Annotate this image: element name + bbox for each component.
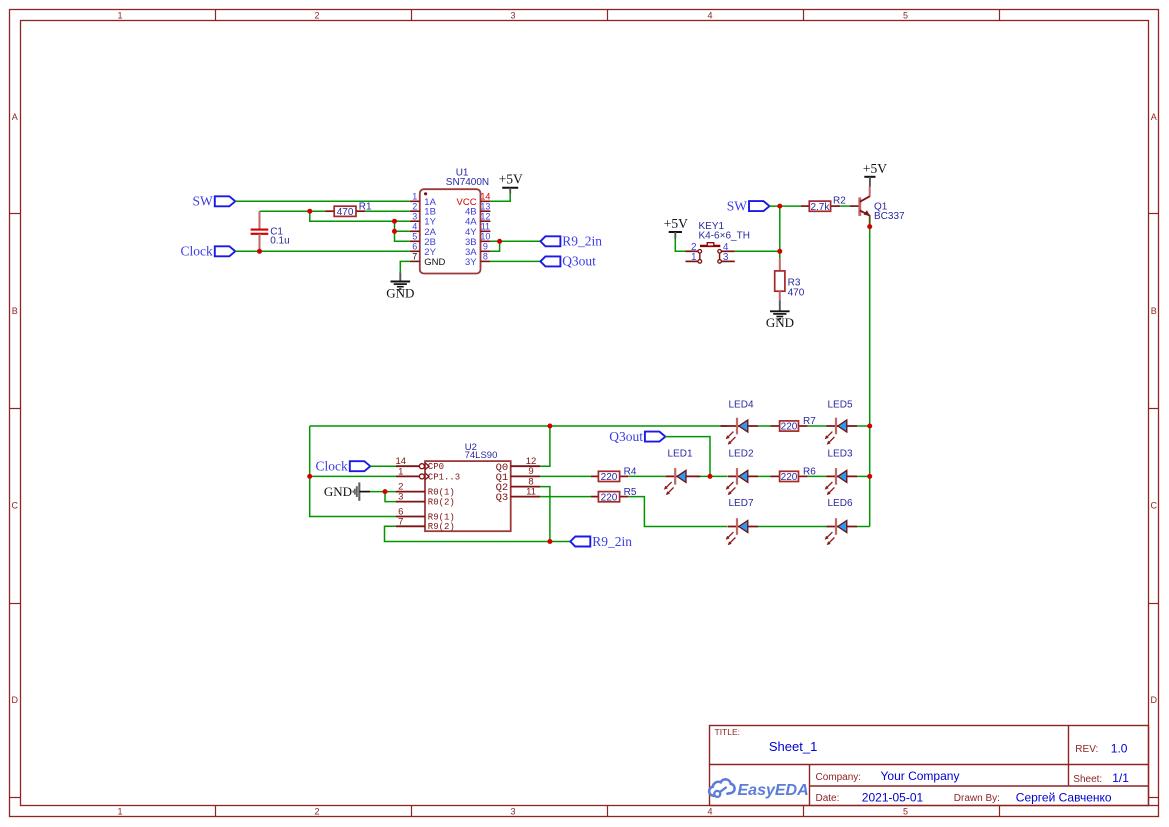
resistor R4 leads [591,475,599,477]
junction SW node [777,204,782,209]
svg-text:12: 12 [480,212,490,222]
svg-text:SW: SW [193,194,214,209]
LED LED4 [721,418,759,445]
wire C1 top to R1 [260,210,326,212]
resistor R1 leads [325,210,334,212]
svg-text:14: 14 [480,192,490,202]
logo EasyEDA [709,779,809,799]
svg-text:2: 2 [314,10,319,20]
wire R6 to LED3 [808,475,827,477]
svg-text:GND: GND [386,285,414,300]
LED LED2 [726,468,758,495]
resistor R7 [780,421,799,431]
svg-text:SN7400N: SN7400N [446,177,489,188]
wire LED3 to rail [857,475,870,477]
net flag R9_2in bottom [570,537,590,547]
svg-text:11: 11 [481,222,490,232]
svg-text:5: 5 [903,10,908,20]
junction pin10 row [497,239,502,244]
wire LED7 to LED6 [758,526,827,528]
resistor R7 leads [771,425,780,427]
wire R5 down to LED7 row [628,497,727,527]
net flag Clock U2 [350,461,371,471]
junction pin4 row [392,229,397,234]
wire LED2 to R6 [758,475,771,477]
wire SW to R2 [770,205,801,207]
svg-text:BC337: BC337 [874,211,905,222]
svg-text:1/1: 1/1 [1112,771,1129,785]
svg-text:Clock: Clock [316,459,348,474]
svg-text:1.0: 1.0 [1111,741,1128,755]
wire left loop vertical [310,426,396,517]
op-amp U1 body SN7400N [420,189,481,273]
svg-text:Q3out: Q3out [609,429,643,444]
svg-text:R9_2in: R9_2in [562,234,602,249]
junction LED4 row [547,424,552,429]
svg-text:Q3: Q3 [496,492,509,504]
svg-text:LED7: LED7 [728,498,753,509]
wire SW node down to KEY1 row [779,206,781,251]
svg-text:6: 6 [412,242,417,252]
row labels [12,112,1158,705]
svg-text:GND: GND [324,484,352,499]
svg-text:1: 1 [691,252,697,263]
svg-text:EasyEDA: EasyEDA [738,782,809,799]
op-amp U2 body 74LS90 [425,461,511,531]
svg-text:R9(2): R9(2) [428,522,455,532]
column labels [117,10,908,816]
wire junction down to pin9 [490,241,499,251]
wire Q1 emitter down LED rail [869,227,871,527]
row ticks [10,214,1159,798]
svg-text:5: 5 [903,807,908,817]
svg-text:Date:: Date: [816,793,840,804]
net flag Q3out U2 [645,432,666,442]
svg-text:GND: GND [424,257,445,268]
svg-text:Sheet_1: Sheet_1 [769,739,817,754]
junction Q1 emitter [867,224,872,229]
svg-text:11: 11 [526,486,536,497]
svg-text:LED3: LED3 [827,449,852,460]
svg-text:B: B [12,306,18,316]
resistor R5 leads [591,496,599,498]
svg-text:3: 3 [412,212,417,222]
svg-text:220: 220 [781,422,798,433]
svg-text:220: 220 [601,492,618,503]
svg-text:13: 13 [480,202,490,212]
wire U1 pin7 to ground [400,261,410,272]
wire SW to U1 pin1 [235,200,409,202]
svg-text:4: 4 [707,10,712,20]
svg-text:2.7k: 2.7k [810,202,830,213]
svg-text:C: C [12,501,19,511]
wire R1 to U1 pin2 [365,210,410,212]
svg-text:7: 7 [412,252,417,262]
svg-text:Your Company: Your Company [881,769,960,783]
net flag Q3out [540,256,560,266]
junction C1 bottom [257,249,262,254]
svg-text:B: B [1151,306,1157,316]
net flag Clock [215,246,236,256]
svg-text:Q3out: Q3out [562,254,596,269]
svg-text:+5V: +5V [863,161,887,176]
resistor R6 [780,471,799,481]
resistor R4 [598,471,619,481]
svg-text:R0(2): R0(2) [428,498,455,508]
net flag SW right [749,201,770,211]
wire +5V to KEY1 pin2 [675,238,685,251]
svg-text:LED6: LED6 [827,498,852,509]
LED LED1 [664,468,700,495]
wire Clock to U1 pin6 [235,250,409,252]
svg-text:Company:: Company: [816,772,862,783]
title block frame [710,726,1159,806]
junction pin3 row [392,219,397,224]
junction R9_2in rail [547,539,552,544]
svg-text:3: 3 [510,807,515,817]
svg-text:1: 1 [117,10,122,20]
net flag R9_2in [540,236,560,246]
svg-text:LED4: LED4 [728,400,753,411]
power flag GND U2 [353,482,370,500]
wire R4 to LED1 [628,475,666,477]
wire top rail to LED4 row [310,425,727,427]
svg-text:4: 4 [412,222,417,232]
wire U1 pin8 to Q3out flag [490,260,540,262]
wire GND node to U2 pin3 [385,492,396,502]
svg-text:K4-6×6_TH: K4-6×6_TH [699,231,750,242]
transistor Q1 [860,187,870,227]
svg-text:2: 2 [412,202,417,212]
U2 left pins [396,456,461,532]
svg-text:D: D [1151,695,1158,705]
svg-text:470: 470 [788,287,805,298]
svg-text:74LS90: 74LS90 [465,450,498,461]
switch KEY1 [686,243,735,264]
wire LED4 to R7 [758,425,771,427]
ground GND U1 [391,281,411,283]
svg-text:220: 220 [781,472,798,483]
svg-text:Sheet:: Sheet: [1073,774,1102,785]
LED LED5 [825,418,857,445]
svg-text:SW: SW [727,198,748,213]
svg-text:8: 8 [483,252,488,262]
svg-text:Drawn By:: Drawn By: [954,793,1000,804]
resistor R1 [334,206,356,216]
svg-text:LED2: LED2 [728,449,753,460]
resistor R6 leads [771,475,780,477]
svg-text:+5V: +5V [664,216,688,231]
svg-text:Clock: Clock [181,244,213,259]
svg-text:TITLE:: TITLE: [715,727,741,737]
svg-text:CP0: CP0 [428,462,444,472]
svg-text:3: 3 [723,252,729,263]
wire Q1 row to R4 [540,475,591,477]
LED LED7 [726,518,758,545]
resistor R2 leads [801,205,809,207]
junction rail top [867,424,872,429]
wire R7 to LED5 [808,425,827,427]
svg-text:10: 10 [480,232,490,242]
svg-text:0.1u: 0.1u [270,235,289,246]
resistor R3 [775,251,785,311]
svg-text:A: A [12,112,18,122]
svg-text:1: 1 [412,192,417,202]
resistor R5 [598,492,619,502]
junction GND node [383,489,388,494]
svg-text:2021-05-01: 2021-05-01 [862,790,924,804]
wire LED5 to rail [857,425,870,427]
junction KEY1 R3 [777,249,782,254]
junction U2 pin1 [307,474,312,479]
wire pin3 row to U1 pin3 [395,220,410,222]
wire Q3 row to R5 [540,496,591,498]
svg-text:LED5: LED5 [827,400,852,411]
wire junction down to pin3 row [310,211,395,221]
wire down to pin5 [395,231,410,241]
wire Clock to U2 pin14 [370,465,396,467]
svg-text:3: 3 [398,492,403,503]
svg-text:+5V: +5V [499,172,523,187]
svg-text:GND: GND [766,315,794,330]
LED LED3 [825,468,857,495]
wire U1 pin10 to R9_2in flag [490,240,540,242]
column ticks [216,10,1000,817]
svg-text:R2: R2 [833,195,846,206]
svg-text:3Y: 3Y [465,257,477,268]
svg-text:D: D [12,695,19,705]
wire U2 pin8 down to R9_2in rail [540,487,550,542]
U1 left pins 1-7 [410,192,446,268]
svg-text:470: 470 [337,207,354,218]
svg-text:R0(1): R0(1) [428,488,455,498]
junction at R1 left [307,209,312,214]
ground GND R3 [770,310,790,312]
wire U2 pin12 up to LED4 row [540,426,550,466]
wire LED6 to rail [857,526,870,528]
junction rail mid [867,474,872,479]
wire GND to U2 pin2 [370,491,396,493]
svg-text:REV:: REV: [1075,744,1098,755]
svg-text:R9(1): R9(1) [428,512,455,522]
svg-text:9: 9 [483,242,488,252]
svg-text:220: 220 [601,472,618,483]
svg-text:R9_2in: R9_2in [592,534,632,549]
svg-text:4: 4 [707,807,712,817]
net flag SW [215,196,236,206]
U2 right pins [496,456,541,504]
svg-text:7: 7 [398,516,403,527]
resistor R2 [809,201,830,211]
svg-text:Сергей Савченко: Сергей Савченко [1016,790,1112,804]
wire LED1 to LED2 [696,475,727,477]
LED LED6 [825,518,857,545]
U1 right pins 8-14 [457,192,491,268]
svg-text:1: 1 [398,466,403,477]
wire U1 pin14 to +5V [490,194,510,202]
wire Q3out to LED1 node [665,437,710,477]
capacitor C1 [251,211,269,251]
wire KEY1 pin4 to R3 [735,250,780,252]
svg-text:3: 3 [510,10,515,20]
svg-text:LED1: LED1 [667,449,692,460]
svg-text:2: 2 [314,807,319,817]
svg-text:5: 5 [412,232,417,242]
wire U2 pin1 loop to top rail [310,475,396,477]
wire R2 to Q1 base [840,205,850,207]
svg-text:1: 1 [117,807,122,817]
svg-text:A: A [1151,112,1157,122]
junction Q3out node [708,474,713,479]
svg-text:CP1..3: CP1..3 [428,472,460,482]
wire down to pin4 [395,221,410,231]
svg-text:C: C [1151,501,1158,511]
wire U2 pin7 to R9_2in rail [385,526,571,541]
